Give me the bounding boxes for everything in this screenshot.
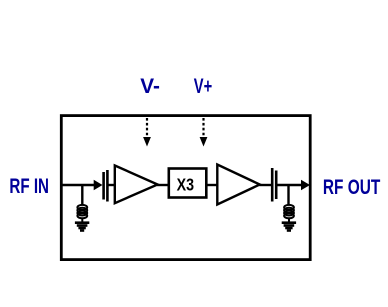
- svg-text:RF OUT: RF OUT: [323, 175, 380, 199]
- svg-text:RF IN: RF IN: [9, 174, 49, 198]
- svg-text:V+: V+: [194, 74, 212, 98]
- svg-text:X3: X3: [177, 175, 194, 195]
- svg-text:V-: V-: [140, 74, 160, 98]
